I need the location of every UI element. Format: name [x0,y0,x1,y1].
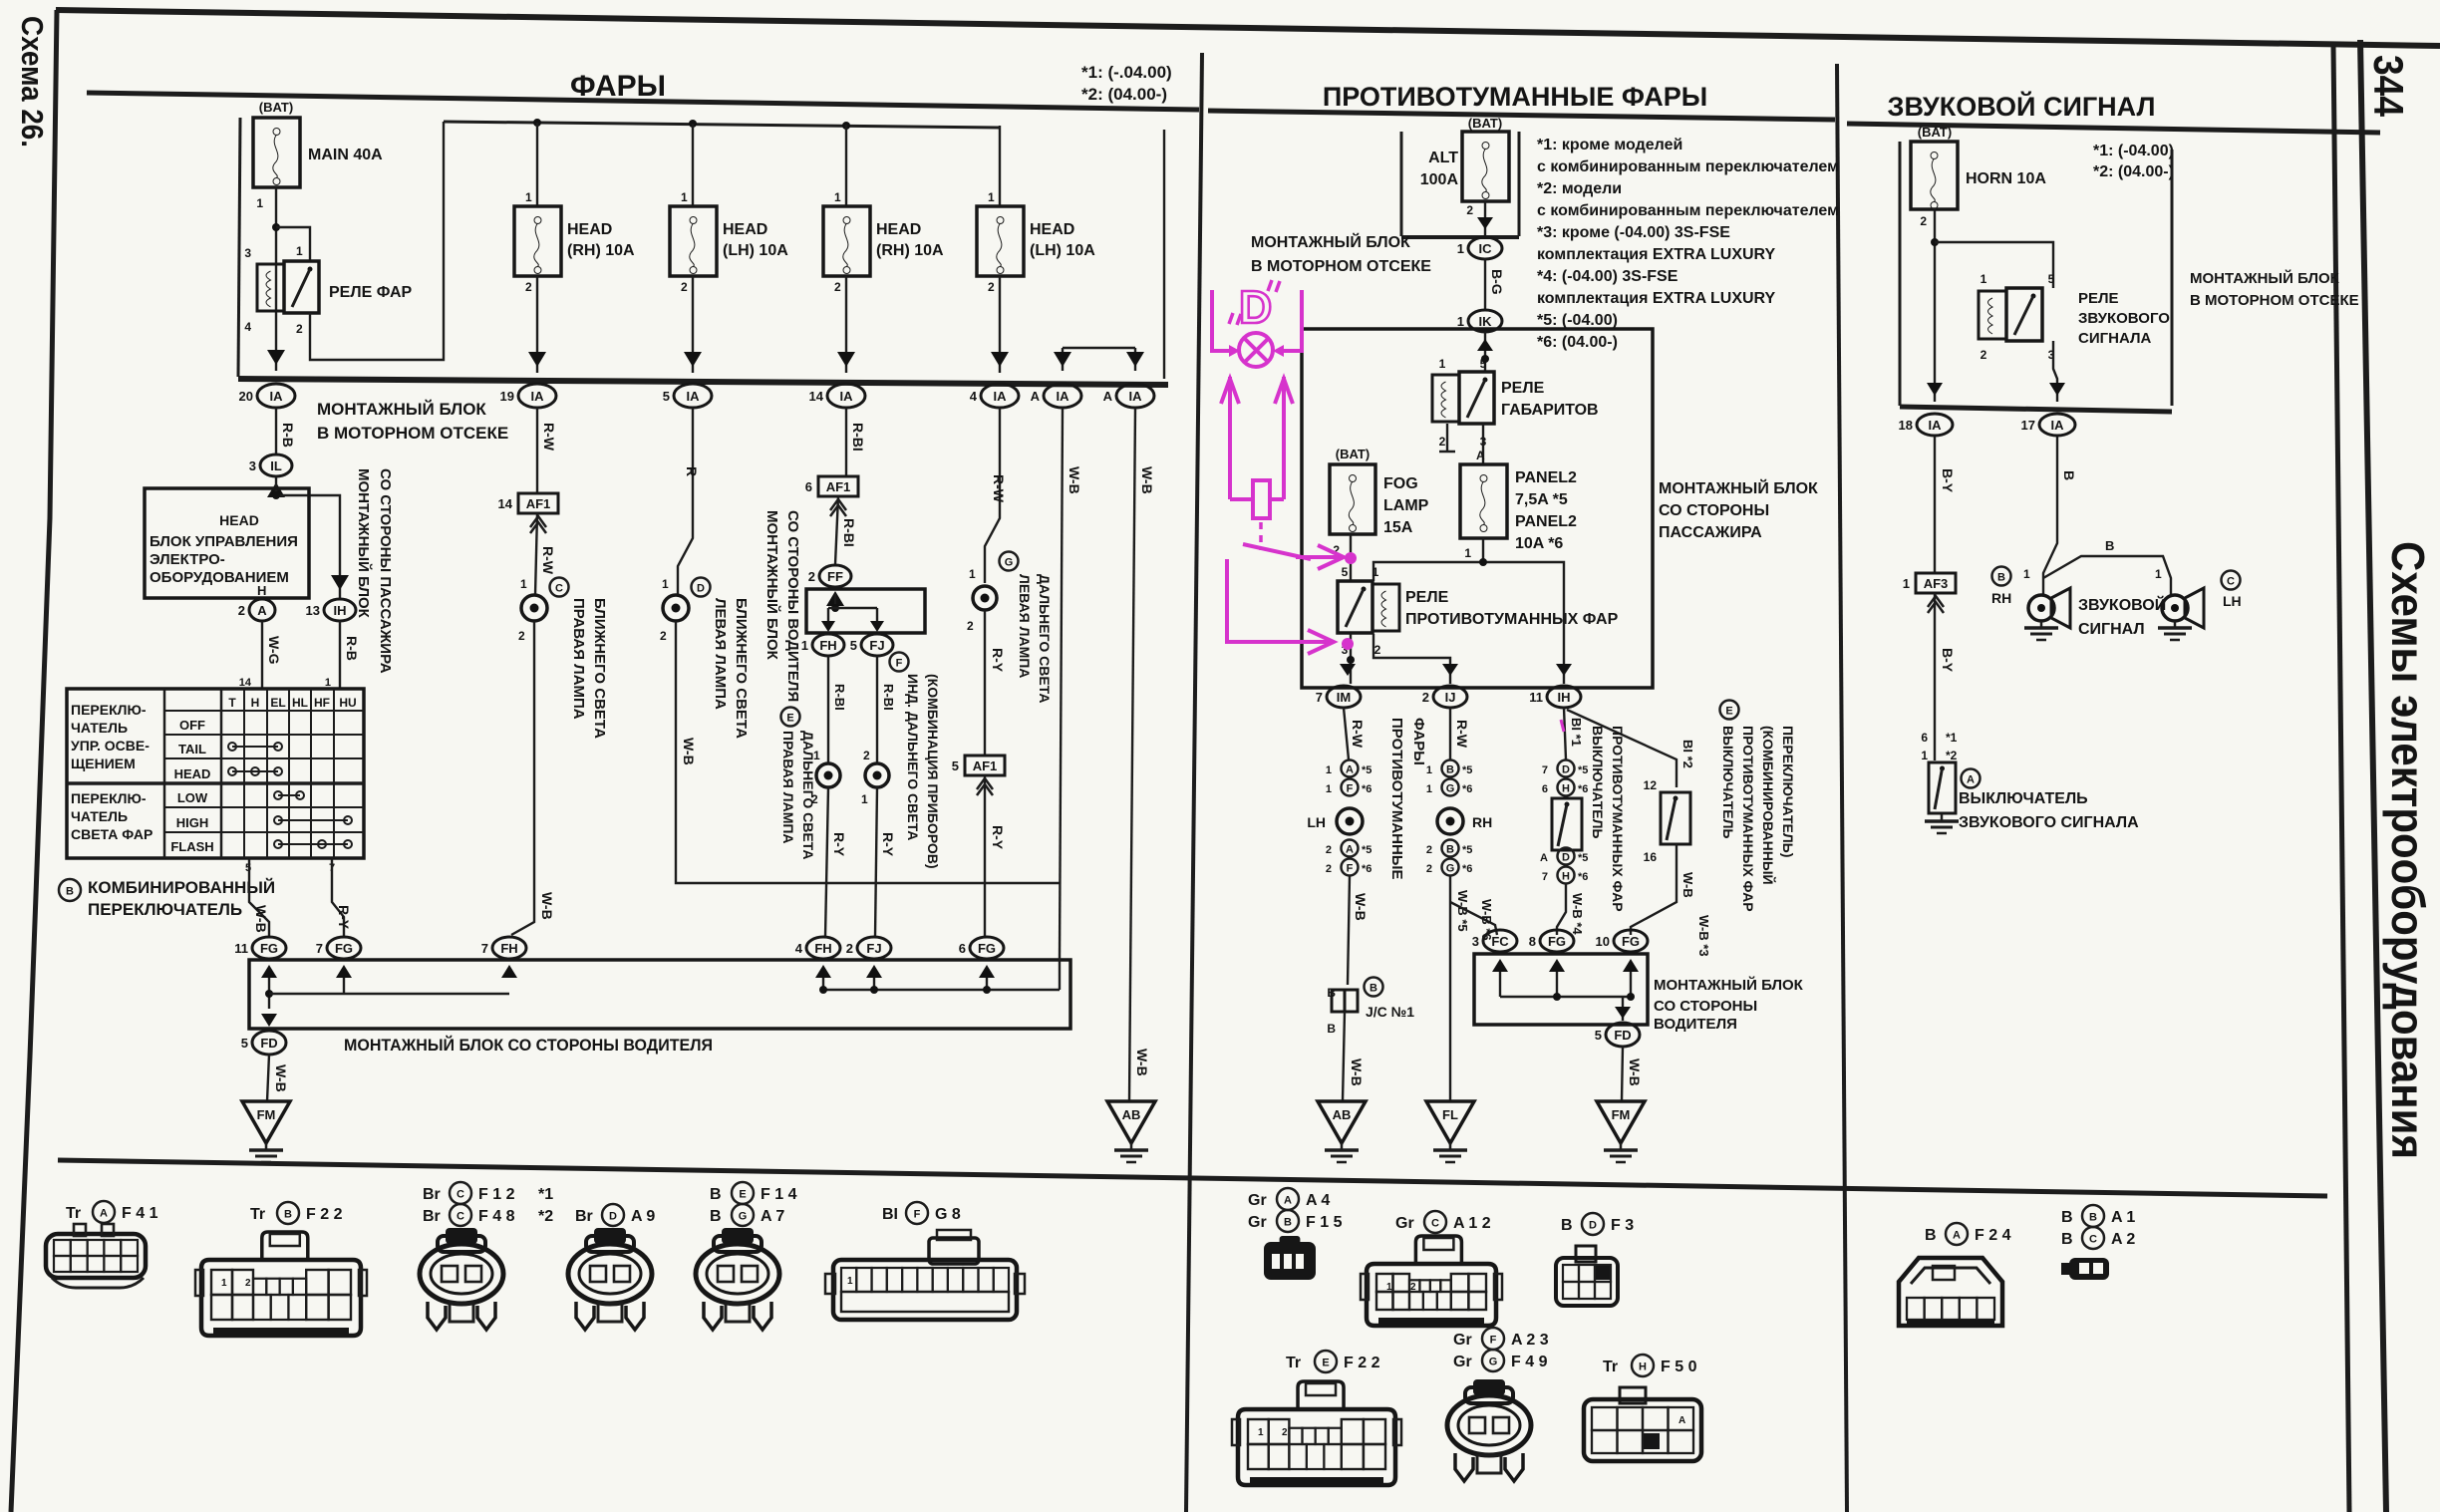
lamp LH fog [1337,808,1363,834]
circled E fog [1720,701,1739,720]
wire head fuse 1 to bus [536,276,538,373]
connector H F50 [1584,1399,1701,1461]
svg-text:Tr: Tr [1603,1359,1618,1375]
ground FM fog [1597,1101,1645,1143]
ground FM headlights [242,1101,290,1143]
fuse HORN 10A [1911,142,1958,209]
svg-text:D: D [1589,1220,1597,1232]
wire IK into block [1484,332,1486,372]
circled E [781,708,800,727]
wire bus to head fuse 2 [692,124,694,206]
svg-text:2: 2 [1410,1282,1416,1293]
wire FD to FM fog [1622,1047,1623,1101]
svg-text:E: E [1322,1358,1329,1369]
fuse HEAD (RH) 10A #1 [514,206,561,276]
circled B horn RH [1992,567,2011,586]
lamp E right high beam [816,763,840,787]
svg-text:F 1 4: F 1 4 [761,1186,797,1203]
svg-text:F: F [914,1209,921,1221]
svg-text:A: A [1678,1415,1685,1426]
wire lamp C to FH [511,621,534,935]
table contacts TAIL row [232,746,278,748]
hand annotation switch stroke [1243,544,1311,559]
connector A/B A4 F15 [1264,1242,1316,1280]
wire A IA 2 to ground AB [1129,408,1135,1101]
connector 5 AF1 [965,756,1005,775]
lamp G left high beam [973,586,997,610]
connector 5 FD [252,1031,286,1055]
svg-text:B: B [1561,1217,1573,1234]
wire R from 5 IA [678,408,693,595]
connector B F22 [201,1260,361,1336]
wire R-W LH fog [1344,708,1349,759]
connector 11 FG [252,937,286,959]
page frame right border [2333,45,2349,1512]
relay РЕЛЕ ФАР [257,264,284,311]
relay РЕЛЕ ЗВУКОВОГО СИГНАЛА [1979,291,2006,339]
connector 13 IH [324,599,356,621]
svg-text:Tr: Tr [250,1206,265,1223]
engine block bracket around ALT fuse [1400,132,1403,236]
wire bus to head fuse 4 [999,126,1001,206]
earth below horn switch [1941,814,1944,820]
earth horn LH [2174,621,2177,627]
wire FD to ground FM [267,1055,269,1101]
wire horn relay to bus 17 [2053,341,2057,402]
connector 2 A under control unit [249,599,275,621]
wire bus to head fuse 3 [845,125,847,206]
connector 2 IJ [1433,686,1467,708]
internal wiring upper driver block [826,591,844,606]
wire fog relay pin2 to IJ [1373,634,1450,684]
connector 17 IA horn [2039,414,2075,436]
wire AF3 to horn switch [1934,593,1936,760]
svg-text:F 4 1: F 4 1 [122,1205,158,1222]
node main/relay junction [272,223,280,231]
connector 10 FG [1614,930,1648,952]
wire A IA 1 down to driver block [1060,408,1063,960]
wire fog fuse to relay [1350,534,1352,581]
svg-text:F 2 4: F 2 4 [1975,1227,2011,1244]
wire R-W RH fog [1449,708,1451,759]
wire W-B feed right [1163,130,1165,379]
svg-text:*1: *1 [538,1186,553,1203]
hand annotation bracket left [1212,290,1232,351]
svg-text:H: H [1639,1361,1647,1373]
connector 3 IL [260,454,292,476]
diagonal wire to combination switch [1567,710,1677,787]
title underline headlights [87,93,1199,110]
circled B combination switch [59,879,81,901]
bridge wire between horns [2043,556,2171,595]
wire lamp G to AF1 [984,610,986,756]
svg-text:Gr: Gr [1248,1214,1267,1231]
svg-text:Tr: Tr [1286,1355,1301,1371]
connector 14 IA [827,384,865,408]
coil stub clearance relay [1446,424,1448,451]
page frame top border [56,10,2440,46]
connector A IA left [1044,384,1081,408]
wire horn fuse to bus [1934,209,1936,402]
svg-text:Gr: Gr [1248,1192,1267,1209]
svg-text:BI: BI [882,1206,898,1223]
section divider fog/horn [1837,64,1847,1512]
ground AB headlights [1107,1101,1155,1143]
svg-text:G 8: G 8 [935,1206,961,1223]
connector A IA right [1116,384,1154,408]
circled C [550,578,569,597]
electrical control unit box [145,488,309,598]
wire R-W from 4 IA [985,408,1000,583]
driver junction block fog [1474,954,1648,1025]
connector 7 FG [327,937,361,959]
connector 7 IM [1327,686,1361,708]
svg-text:Gr: Gr [1395,1215,1414,1232]
wire FJ to lamp F [876,656,878,762]
wire W-B RH fog to ground [1449,876,1451,1101]
wire head fuse 3 to bus [845,276,847,373]
connector A F24 [1899,1258,2002,1326]
circled F [890,653,909,672]
svg-text:Gr: Gr [1453,1332,1472,1349]
hand annotation bottom loop and resistor [1230,497,1253,501]
wire head fuse 2 to bus [692,276,694,373]
svg-text:A 4: A 4 [1306,1192,1330,1209]
connector 4 FH [806,937,840,959]
arrows into fog driver block [1492,959,1508,972]
fuse FOG LAMP 15A [1330,464,1375,534]
fuse HEAD (LH) 10A #2 [670,206,717,276]
branch wire to FC [1450,902,1497,935]
svg-text:B: B [710,1186,722,1203]
wire JC to ground AB [1343,1012,1345,1101]
svg-text:C: C [457,1189,464,1201]
wire R-Y table to FG [332,858,344,937]
wire AF1 to FF [835,496,838,564]
svg-text:F: F [1490,1335,1497,1347]
connector 19 IA [518,384,556,408]
fuse PANEL2 [1460,464,1507,538]
section divider headlights/fog [1186,53,1202,1512]
connector 20 IA [257,384,295,408]
wire FH to lamp E [827,656,829,762]
wire B-G [1484,259,1486,310]
svg-text:B: B [1284,1217,1292,1229]
svg-text:F 2 2: F 2 2 [1344,1355,1380,1371]
horn RH [2028,595,2054,621]
arrow into control unit [267,482,285,497]
page frame left border [11,10,57,1512]
earth horn RH [2040,621,2043,627]
fuse MAIN 40A [253,118,300,187]
hand annotation arrow to relay coil [1296,555,1340,559]
hand annotation quote marks upper [1268,280,1280,292]
svg-text:B: B [2061,1209,2073,1226]
hand annotation quote marks lower [1229,313,1241,325]
connector 1 FH [812,634,844,656]
svg-text:C: C [2089,1234,2097,1246]
connector E F22 fog [1238,1409,1395,1485]
table contacts LOW row [278,794,300,796]
svg-text:Gr: Gr [1453,1354,1472,1370]
svg-text:G: G [1489,1357,1498,1368]
connector 7 FH [492,937,526,959]
circled G [1000,552,1019,571]
table contacts HEAD row [232,770,278,772]
svg-text:A 1: A 1 [2111,1209,2135,1226]
page margin rule right [2360,40,2386,1512]
circled C horn LH [2222,571,2241,590]
connector 1 IC [1468,237,1502,259]
svg-text:A 7: A 7 [761,1208,784,1225]
wire junction to relay switch pin 1 [276,227,310,261]
wire into control unit + branch to IH [275,476,277,495]
svg-text:2: 2 [1282,1427,1288,1438]
hand annotation small tick [1561,720,1564,732]
connector B/C A1 A2 [2069,1258,2109,1280]
engine compartment junction block bottom bus [238,379,1168,385]
connector 2 FF [819,565,851,587]
connector C A12 [1367,1264,1496,1326]
connector 18 IA horn [1917,414,1953,436]
svg-text:A: A [1284,1195,1292,1207]
connector 6 AF1 [818,476,858,496]
svg-text:1: 1 [221,1278,227,1289]
connector A F41 [46,1234,146,1278]
wire R-B to switch table [339,621,341,689]
svg-text:B: B [2089,1212,2097,1224]
fog switch [1552,798,1582,850]
horn engine block right edge [2171,150,2174,406]
wire R-BI from 14 IA [845,408,847,476]
horn engine block bottom bus [1900,407,2172,412]
wire W-G to switch table [261,621,263,689]
lamp RH fog [1437,808,1463,834]
svg-text:D: D [609,1211,617,1223]
passenger junction block box fog [1302,329,1653,688]
svg-text:F 4 9: F 4 9 [1511,1354,1548,1370]
engine compartment junction block left edge [238,118,240,377]
svg-text:B: B [284,1209,292,1221]
wire lamp E to 4 FH [825,787,828,937]
relay РЕЛЕ ПРОТИВОТУМАННЫХ ФАР [1372,584,1399,631]
hand annotation arrow line right [1282,377,1286,499]
relay РЕЛЕ ГАБАРИТОВ [1432,375,1459,422]
svg-text:A: A [1953,1230,1961,1242]
hand annotation bracket right [1282,290,1302,351]
horn engine block left edge [1899,142,1902,406]
svg-text:F 5 0: F 5 0 [1661,1359,1697,1375]
connector 1 IK [1468,310,1502,332]
wire bus to head fuse 1 [536,123,538,206]
wire panel2 branch to IH [1483,562,1564,684]
wire fog switch to 8 FG [1557,884,1566,935]
svg-text:B: B [2061,1231,2073,1248]
wire relay to panel2 fuse [1482,424,1484,464]
circled A horn switch [1962,769,1981,788]
connector 14 AF1 [518,493,558,513]
svg-text:C: C [1431,1218,1439,1230]
node horn branch [1931,238,1939,246]
wire W-B LH fog down [1348,876,1350,985]
wire head fuse 4 to bus [999,276,1001,373]
driver side junction block box [249,960,1070,1029]
connector 6 FG [970,937,1004,959]
svg-text:1: 1 [847,1276,853,1287]
wire to right low beam lamp [535,513,537,595]
svg-text:*2: *2 [538,1208,553,1225]
wire B-Y to AF3 [1934,437,1936,573]
svg-text:C: C [457,1211,464,1223]
fuse HEAD (RH) 10A #3 [823,206,870,276]
table contacts FLASH row [278,843,348,845]
internal links driver block [268,978,270,1009]
connector 11 IH [1547,686,1581,708]
svg-text:F 3: F 3 [1611,1217,1634,1234]
wire lamp D ground return [676,621,1060,883]
combination fog switch [1661,792,1690,844]
wire BI from 11 IH [1564,708,1566,759]
svg-text:G: G [739,1211,748,1223]
svg-text:A 2 3: A 2 3 [1511,1332,1549,1349]
ground AB fog [1318,1101,1366,1143]
svg-text:F 1 5: F 1 5 [1306,1214,1343,1231]
title underline horn [1847,124,2380,133]
horn switch [1929,762,1956,813]
combination switch table frame [67,689,364,858]
wire fog relay out to IM [1350,634,1352,684]
hand annotation dashed stem [1259,522,1263,550]
connector F G8 [833,1260,1017,1320]
wire alt fuse to IC [1484,201,1486,235]
head fuse top bus [444,122,1000,128]
svg-text:1: 1 [1386,1282,1392,1293]
svg-text:Br: Br [423,1208,441,1225]
circled D [692,578,711,597]
lamp C right low beam [521,595,547,621]
lamp F high beam indicator [865,763,889,787]
svg-text:Tr: Tr [66,1205,81,1222]
hand annotation arrow line left [1228,377,1232,499]
svg-text:Br: Br [423,1186,441,1203]
connector D A9 [594,1228,626,1244]
junction connector J/C No1 [1332,990,1345,1012]
hand annotation lower hook [1227,559,1330,642]
wire panel2 to fog relay pin 1 [1373,538,1483,581]
svg-text:A 9: A 9 [631,1208,655,1225]
connector 5 FJ [861,634,893,656]
wire AF1 to 6 FG [984,775,986,937]
connector E/G F14 A7 [722,1228,754,1244]
connector 1 AF3 [1916,573,1956,593]
svg-text:F 1 2: F 1 2 [478,1186,515,1203]
wire R-B connector 20 to IL [275,408,277,454]
svg-text:E: E [739,1189,746,1201]
lamp D left low beam [663,595,689,621]
svg-text:A 2: A 2 [2111,1231,2135,1248]
svg-text:B: B [1925,1227,1937,1244]
connector 2 FJ [857,937,891,959]
svg-text:F 2 2: F 2 2 [306,1206,343,1223]
fuse HEAD (LH) 10A #4 [977,206,1024,276]
wire W-B table to FG [249,858,269,937]
connector 5 FD fog [1606,1023,1640,1047]
wire R-W from 19 IA [536,408,538,493]
fuse ALT 100A [1462,132,1509,201]
bracket wire to connectors A IA [1063,347,1135,349]
connector 4 IA [981,384,1019,408]
svg-text:Br: Br [575,1208,593,1225]
connector 5 IA [674,384,712,408]
svg-text:B: B [710,1208,722,1225]
arrows into driver block [261,965,277,978]
wire lamp F to 2 FJ [875,787,877,937]
connector 3 FC [1483,930,1517,952]
svg-text:2: 2 [245,1278,251,1289]
connector C F12/F48 [446,1228,477,1244]
wire relay output to head fuse bus riser [310,122,444,360]
hand annotation lamp circle [1239,333,1273,367]
svg-text:A: A [100,1208,108,1220]
horizontal separator above connector row [58,1160,2327,1196]
connector F/G A23 F49 [1473,1379,1505,1395]
wire branch to horn relay [1935,242,2053,288]
svg-text:F 4 8: F 4 8 [478,1208,515,1225]
wire combination switch to 10 FG [1631,844,1677,935]
ground FL fog [1426,1101,1474,1143]
wire B to horns [2043,437,2057,595]
driver block upper box [806,589,925,633]
svg-text:A 1 2: A 1 2 [1453,1215,1491,1232]
title underline fog [1208,111,1835,120]
internal wires fog driver block [1499,972,1501,997]
table contacts HIGH row [278,819,348,821]
connector D F3 [1556,1258,1618,1306]
svg-text:1: 1 [1258,1427,1264,1438]
connector 8 FG [1540,930,1574,952]
wire main fuse to bus [275,187,277,371]
horn LH [2162,595,2188,621]
